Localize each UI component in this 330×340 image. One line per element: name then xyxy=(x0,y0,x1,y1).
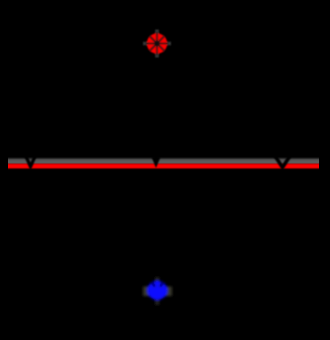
arrowhead left xyxy=(25,154,36,167)
image point marker (blue) xyxy=(143,277,172,305)
gray mirror backing line xyxy=(8,157,319,164)
arrowhead center xyxy=(152,149,161,168)
faint vertical spoke xyxy=(155,277,160,305)
red mirror line xyxy=(8,164,319,170)
arrowhead right xyxy=(275,155,291,168)
blue disc xyxy=(147,281,167,300)
source starburst marker xyxy=(143,30,171,58)
black asterisk spokes xyxy=(156,33,158,55)
faint gray horizontal band xyxy=(143,287,172,297)
red disc xyxy=(147,33,167,53)
dark notches on top xyxy=(151,282,155,287)
gray plus spokes xyxy=(155,30,159,58)
